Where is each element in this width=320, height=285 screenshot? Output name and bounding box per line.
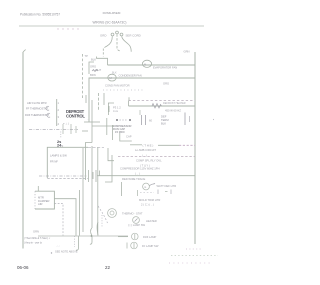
svg-text:CONDENSER FAN: CONDENSER FAN [119, 74, 142, 78]
svg-text:COMP SPL RLY OVL: COMP SPL RLY OVL [136, 158, 162, 162]
svg-text:Publication No. 5995510757: Publication No. 5995510757 [20, 12, 60, 16]
main mid bus dash-dot left [39, 175, 87, 177]
relay dashed to bus [179, 144, 195, 146]
wire bundle lower vertical 1 [86, 143, 93, 181]
lamp 2 lead [126, 243, 128, 249]
svg-text:( .. ): ( .. ) [142, 154, 147, 158]
svg-text:COND FAN MOTOR: COND FAN MOTOR [105, 83, 130, 87]
svg-text:DEF: DEF [161, 114, 167, 118]
junction dot [91, 235, 93, 237]
damper out wire solid [54, 199, 76, 236]
service cord plug prong R [120, 33, 123, 36]
svg-text:..: .. [87, 118, 89, 121]
header rule [19, 25, 204, 27]
svg-text:60: 60 [149, 118, 152, 122]
cap link dashes [120, 119, 128, 121]
heater circle [133, 217, 140, 224]
svg-text:1: 1 [58, 101, 60, 105]
damper out wire dashed [54, 204, 63, 236]
heater line tick [139, 110, 141, 115]
wire bundle vertical 6 [112, 125, 114, 140]
hooks above bottom bus [91, 228, 92, 236]
condenser fan motor [108, 74, 116, 81]
wire bundle lower vertical 3 [91, 146, 93, 228]
below-bus wire with hook [76, 236, 79, 250]
svg-text:WIRING (SC-63AA73C): WIRING (SC-63AA73C) [92, 21, 126, 25]
svg-text:ORG: ORG [90, 65, 96, 69]
wire bundle lower vertical 2 [82, 148, 84, 232]
stray dot [51, 252, 52, 253]
svg-text:P3 1 2: P3 1 2 [113, 106, 121, 110]
box top dashed continuation [88, 146, 104, 148]
resistor zigzag [92, 70, 98, 72]
svg-text:LAMPS & SW: LAMPS & SW [50, 153, 67, 157]
damper motor box [35, 191, 54, 209]
svg-text:SER CORD: SER CORD [126, 33, 141, 37]
bracket pair [157, 190, 159, 195]
svg-text:FRZ LAMP: FRZ LAMP [143, 235, 156, 239]
wire cord right [122, 36, 132, 52]
lamp 1 [132, 233, 139, 240]
damper box tick [37, 186, 39, 191]
svg-text:= ⊥ ): = ⊥ ) [63, 122, 69, 126]
svg-text:3: 3 [58, 115, 60, 119]
wire bundle vertical 4 [103, 93, 105, 105]
wire cross horizontal b [92, 125, 114, 127]
wire cross horizontal a [84, 121, 100, 123]
svg-text:DEFROST HEATER: DEFROST HEATER [163, 102, 186, 105]
stray speck [213, 119, 214, 120]
wire bundle vertical 5 [106, 118, 108, 135]
svg-text:GRN: GRN [33, 229, 39, 233]
FRZ thermostat contact symbol [47, 113, 50, 117]
perforation dotted row 1 [186, 248, 203, 250]
svg-text:MOLD TRIM HTR: MOLD TRIM HTR [139, 198, 160, 202]
mullion thermostat double circle [108, 209, 117, 218]
svg-text:GRD: GRD [100, 33, 106, 37]
wire bundle vertical 2 [91, 100, 93, 143]
svg-text:| ThermShk & T-Stat | ✓: | ThermShk & T-Stat | ✓ [24, 237, 51, 240]
svg-text:HEATER: HEATER [146, 219, 157, 223]
svg-text:06-06: 06-06 [17, 265, 29, 270]
connector tick [189, 116, 191, 122]
bottom bus [38, 235, 128, 237]
svg-text:4: 4 [58, 122, 60, 126]
lamp 2 [131, 242, 138, 249]
bracket left of motor [136, 190, 138, 196]
dotted drop [101, 215, 103, 228]
wire corner top [108, 103, 114, 115]
svg-text:Lo AMB CIRCUIT: Lo AMB CIRCUIT [135, 148, 156, 152]
svg-text:RED WIRE TRACE: RED WIRE TRACE [122, 177, 145, 181]
wire cord left [104, 36, 112, 47]
svg-text:CAP: CAP [126, 134, 132, 138]
svg-text:.: .:: .: .: [56, 245, 60, 248]
svg-text:FR NF: FR NF [50, 159, 58, 163]
wire control left vertical [56, 99, 58, 126]
svg-text:FF THERMOSTAT: FF THERMOSTAT [26, 106, 48, 110]
svg-text:DAMPER: DAMPER [38, 199, 50, 203]
svg-text:BLK: BLK [91, 58, 96, 62]
defrost heater element [152, 104, 162, 109]
wire cross horizontal c [82, 130, 88, 132]
bracket small [108, 106, 110, 112]
perforation dotted row 3 [169, 262, 210, 264]
perforation dotted row 2 [171, 255, 218, 257]
right side dashes [165, 191, 168, 193]
svg-text:( | ) LAMP SW: ( | ) LAMP SW [128, 223, 146, 227]
svg-text:BLK: BLK [161, 122, 166, 126]
dotted leader [103, 89, 143, 91]
svg-text:( T H E ): ( T H E ) [143, 143, 154, 147]
svg-text:WATT DEF HTR: WATT DEF HTR [157, 184, 177, 188]
relay line left [130, 144, 142, 146]
run capacitor plates [141, 115, 143, 125]
svg-text:FRZ THERMOSTAT: FRZ THERMOSTAT [25, 113, 49, 117]
wire ground drop [102, 49, 104, 57]
switch hooks on harness line [88, 170, 90, 182]
svg-text:2 ( C ) ( .. ): 2 ( C ) ( .. ) [141, 202, 154, 206]
svg-text:450 W 60 HZ: 450 W 60 HZ [165, 109, 181, 113]
svg-text:SEE NOTE ABOVE: SEE NOTE ABOVE [55, 249, 78, 253]
wire defrost heater line [129, 105, 196, 107]
svg-text:AIR FLOW MTR: AIR FLOW MTR [27, 101, 47, 105]
svg-text:22: 22 [105, 265, 111, 270]
svg-text:COMPRESSOR 115V 60HZ 1PH: COMPRESSOR 115V 60HZ 1PH [120, 166, 160, 170]
service cord plug prong L [111, 33, 114, 36]
dash-dot harness line upper [29, 129, 78, 131]
svg-text:MTR: MTR [38, 195, 44, 199]
small dash marks [140, 192, 154, 194]
below-bus dotted drop [74, 236, 76, 247]
svg-text:AIR: AIR [38, 202, 43, 206]
wire ground dashed vertical [82, 54, 84, 98]
service cord plug prong N [116, 31, 119, 34]
wire bundle lower vertical 5 [105, 155, 112, 182]
wire jog to evap fan line [97, 57, 108, 66]
svg-text:FRS6LR5EM: FRS6LR5EM [103, 11, 121, 15]
bottom feed to lamp [118, 236, 128, 238]
harness hooks [62, 124, 64, 134]
wire bundle vertical 1 [85, 95, 87, 103]
connector bar [184, 113, 186, 126]
svg-text:ORG: ORG [163, 81, 169, 85]
wire left power bus [22, 52, 24, 249]
dotted drop above P2 [60, 132, 62, 139]
defrost heater dashed feed [129, 100, 196, 102]
evaporator fan motor [142, 60, 151, 67]
FF thermostat contact symbol [46, 106, 49, 110]
svg-text:GRN: GRN [184, 49, 190, 53]
wire evap fan bus [108, 64, 196, 66]
svg-text:FF LAMP SW: FF LAMP SW [142, 244, 159, 248]
wire bundle lower vertical 4 [97, 147, 99, 235]
damper box dashed left edge [34, 191, 36, 209]
wire cord middle [117, 34, 121, 51]
wire bundle vertical 3 [98, 93, 100, 110]
compressor cap marks [116, 119, 118, 121]
box fresh food section top edge [47, 147, 88, 178]
below-bus wire 2 [90, 236, 92, 244]
svg-text:CONTROL: CONTROL [66, 113, 85, 118]
svg-text:M: M [144, 62, 147, 66]
wire corner mid [108, 148, 114, 161]
svg-text:4 xx: 4 xx [113, 109, 119, 113]
vertical drop left of motor [121, 182, 123, 196]
svg-text:| Amp in - pwr |s: | Amp in - pwr |s [24, 241, 43, 244]
svg-text:EVAPORATOR FAN: EVAPORATOR FAN [153, 66, 177, 70]
svg-text:( .. ): ( .. ) [135, 171, 140, 175]
box bottom dashed edge [47, 177, 88, 179]
svg-text:2: 2 [58, 108, 60, 112]
switch bracket [89, 62, 94, 74]
relay line right [158, 144, 179, 146]
dashed curve to thermostat [98, 206, 108, 223]
run motor squiggle [150, 184, 156, 187]
main mid bus solid [97, 175, 195, 177]
svg-text:THERMO - STAT: THERMO - STAT [122, 211, 143, 215]
wire heater link [128, 101, 130, 106]
run motor circle [143, 183, 150, 190]
wire stub above dashed line [128, 97, 130, 100]
overload dashed line [118, 156, 195, 158]
svg-text:BRN: BRN [90, 73, 96, 77]
perforation dots top [57, 28, 78, 29]
wire drop into mid bus [99, 171, 101, 176]
svg-text:TP: TP [85, 54, 89, 58]
wire condenser fan bus [89, 78, 195, 122]
svg-text:TERM: TERM [161, 118, 169, 122]
wire vertical x79 [79, 190, 81, 236]
svg-text:m: m [144, 186, 147, 189]
compressor cap bracket [120, 133, 132, 141]
left power bus hook [23, 50, 26, 52]
wire right power bus [194, 52, 196, 244]
